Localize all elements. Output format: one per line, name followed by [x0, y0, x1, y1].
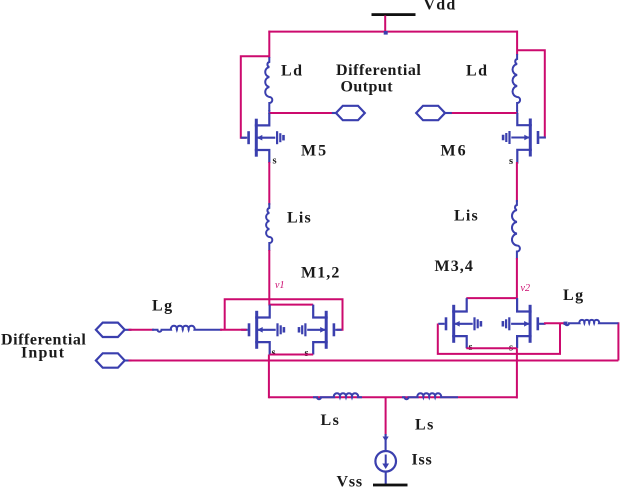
wire M4 gate lead — [544, 322, 566, 324]
label M6 — [441, 143, 468, 160]
label s (M1 source) — [272, 348, 276, 359]
svg-text:Ls: Ls — [321, 412, 341, 429]
svg-text:Input: Input — [21, 345, 65, 362]
label Ld right — [466, 63, 489, 80]
label Lg right — [563, 287, 585, 304]
label Input — [21, 345, 65, 362]
wire Vdd tap — [384, 16, 386, 33]
svg-text:Lg: Lg — [152, 298, 174, 315]
wire M3,4 drain link — [466, 297, 517, 299]
wire M1,2 drain link — [269, 304, 313, 306]
port hexagon input lower — [96, 353, 132, 367]
svg-text:Ls: Ls — [415, 417, 435, 434]
inductor Lis left — [266, 203, 272, 251]
transistor M2 (right of M1,2) — [298, 305, 342, 355]
label Differential (input) — [1, 332, 86, 349]
label Lis right — [454, 208, 479, 225]
wire Iss to Vss — [385, 472, 387, 485]
svg-text:s: s — [273, 156, 277, 167]
svg-text:v2: v2 — [521, 283, 530, 294]
wire left branch upper — [268, 31, 270, 58]
inductor Ls right — [402, 393, 458, 399]
label Ls left — [321, 412, 341, 429]
svg-text:s: s — [509, 156, 513, 167]
svg-text:Lis: Lis — [287, 210, 312, 227]
svg-text:v1: v1 — [275, 280, 284, 291]
wire M3,4 gate junction drop — [559, 323, 561, 354]
wire bottom rail — [269, 396, 517, 398]
wire M6 source to Lis — [516, 162, 518, 202]
label M5 — [301, 143, 328, 160]
junction tick right Lg — [564, 322, 568, 325]
port hexagon output right — [416, 106, 452, 120]
power symbol Vdd bar — [372, 13, 416, 16]
svg-text:M6: M6 — [441, 143, 468, 160]
inductor Lg right — [564, 320, 619, 325]
label s (M5 source) — [273, 156, 277, 167]
label Differential (output) — [336, 62, 421, 79]
wire input lower — [129, 360, 619, 362]
wire M3,4 source link — [466, 347, 517, 349]
wire output right — [449, 112, 517, 114]
label Vss — [337, 474, 363, 487]
current source Iss — [375, 451, 396, 472]
label Vdd — [424, 0, 457, 14]
label Ls right — [415, 417, 435, 434]
wire M5 gate loop — [241, 56, 269, 137]
label Iss — [412, 452, 433, 469]
wire M1,2 source link — [270, 354, 313, 356]
svg-text:M1,2: M1,2 — [301, 265, 341, 282]
transistor M3 (left of M3,4) — [438, 298, 482, 348]
svg-text:Vdd: Vdd — [424, 0, 457, 14]
label Lis left — [287, 210, 312, 227]
wire top rail — [268, 31, 518, 33]
wire Lis right to M3,4 drain — [516, 258, 518, 299]
label s (M2 source) — [305, 348, 309, 359]
label Ld left — [281, 63, 304, 80]
label s (M3 source) — [469, 342, 473, 353]
svg-text:Differential: Differential — [336, 62, 421, 79]
svg-text:Lg: Lg — [563, 287, 585, 304]
svg-text:M3,4: M3,4 — [435, 258, 475, 275]
label M3,4 — [435, 258, 475, 275]
inductor Lis right — [512, 200, 520, 260]
inductor Ld left — [265, 57, 272, 114]
junction at Vdd tap — [384, 31, 388, 35]
transistor M4 (right of M3,4) — [502, 298, 546, 348]
svg-text:Output: Output — [341, 79, 394, 96]
svg-text:M5: M5 — [301, 143, 328, 160]
transistor M5 — [241, 113, 285, 163]
wire M1,2 source down — [268, 355, 270, 399]
label s (M6 source) — [509, 156, 513, 167]
label M1,2 — [301, 265, 341, 282]
wire Lg to M1 gate — [220, 329, 247, 331]
wire Lis left to M1,2 drain — [268, 250, 270, 306]
svg-text:Ld: Ld — [466, 63, 489, 80]
transistor M6 — [502, 113, 546, 164]
wire right branch upper — [516, 31, 518, 55]
label Output — [341, 79, 394, 96]
wire Iss tap lower — [383, 434, 389, 452]
inductor Lg left — [152, 326, 222, 332]
label v1 — [275, 280, 284, 291]
svg-text:Iss: Iss — [412, 452, 433, 469]
svg-text:Ld: Ld — [281, 63, 304, 80]
label s (M4 source) — [509, 343, 513, 354]
wire M1,2 gate box — [225, 299, 343, 330]
wire M3,4 source down — [516, 348, 518, 398]
svg-text:Vss: Vss — [337, 474, 363, 487]
port hexagon input upper — [96, 323, 132, 337]
transistor M1 (left of M1,2) — [241, 305, 285, 355]
svg-text:Lis: Lis — [454, 208, 479, 225]
wire M6 gate loop — [517, 50, 545, 137]
wire input upper — [129, 329, 155, 331]
wire M3,4 gate tie U — [438, 323, 560, 354]
ground symbol Vss bar — [373, 484, 408, 487]
svg-text:s: s — [272, 348, 276, 359]
label v2 — [521, 283, 530, 294]
wire input right riser — [617, 322, 619, 360]
inductor Ld right — [513, 54, 521, 114]
wire Iss tap — [385, 397, 387, 435]
wire M5 source to Lis — [268, 162, 270, 205]
label Lg left — [152, 298, 174, 315]
inductor Ls left — [313, 393, 362, 399]
wire output left — [269, 112, 333, 114]
port hexagon output left — [332, 106, 365, 120]
